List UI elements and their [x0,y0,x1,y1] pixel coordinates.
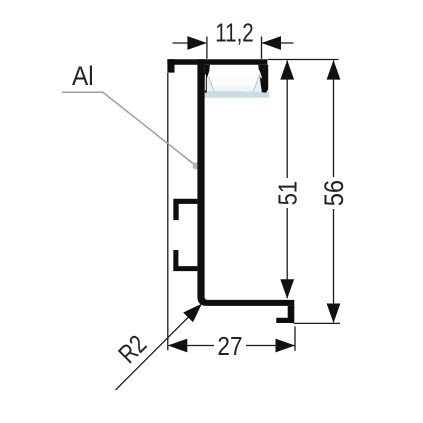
svg-text:51: 51 [274,181,303,206]
svg-text:11,2: 11,2 [215,18,253,47]
svg-text:Al: Al [72,62,94,91]
svg-text:27: 27 [217,333,242,362]
svg-text:56: 56 [320,180,350,206]
